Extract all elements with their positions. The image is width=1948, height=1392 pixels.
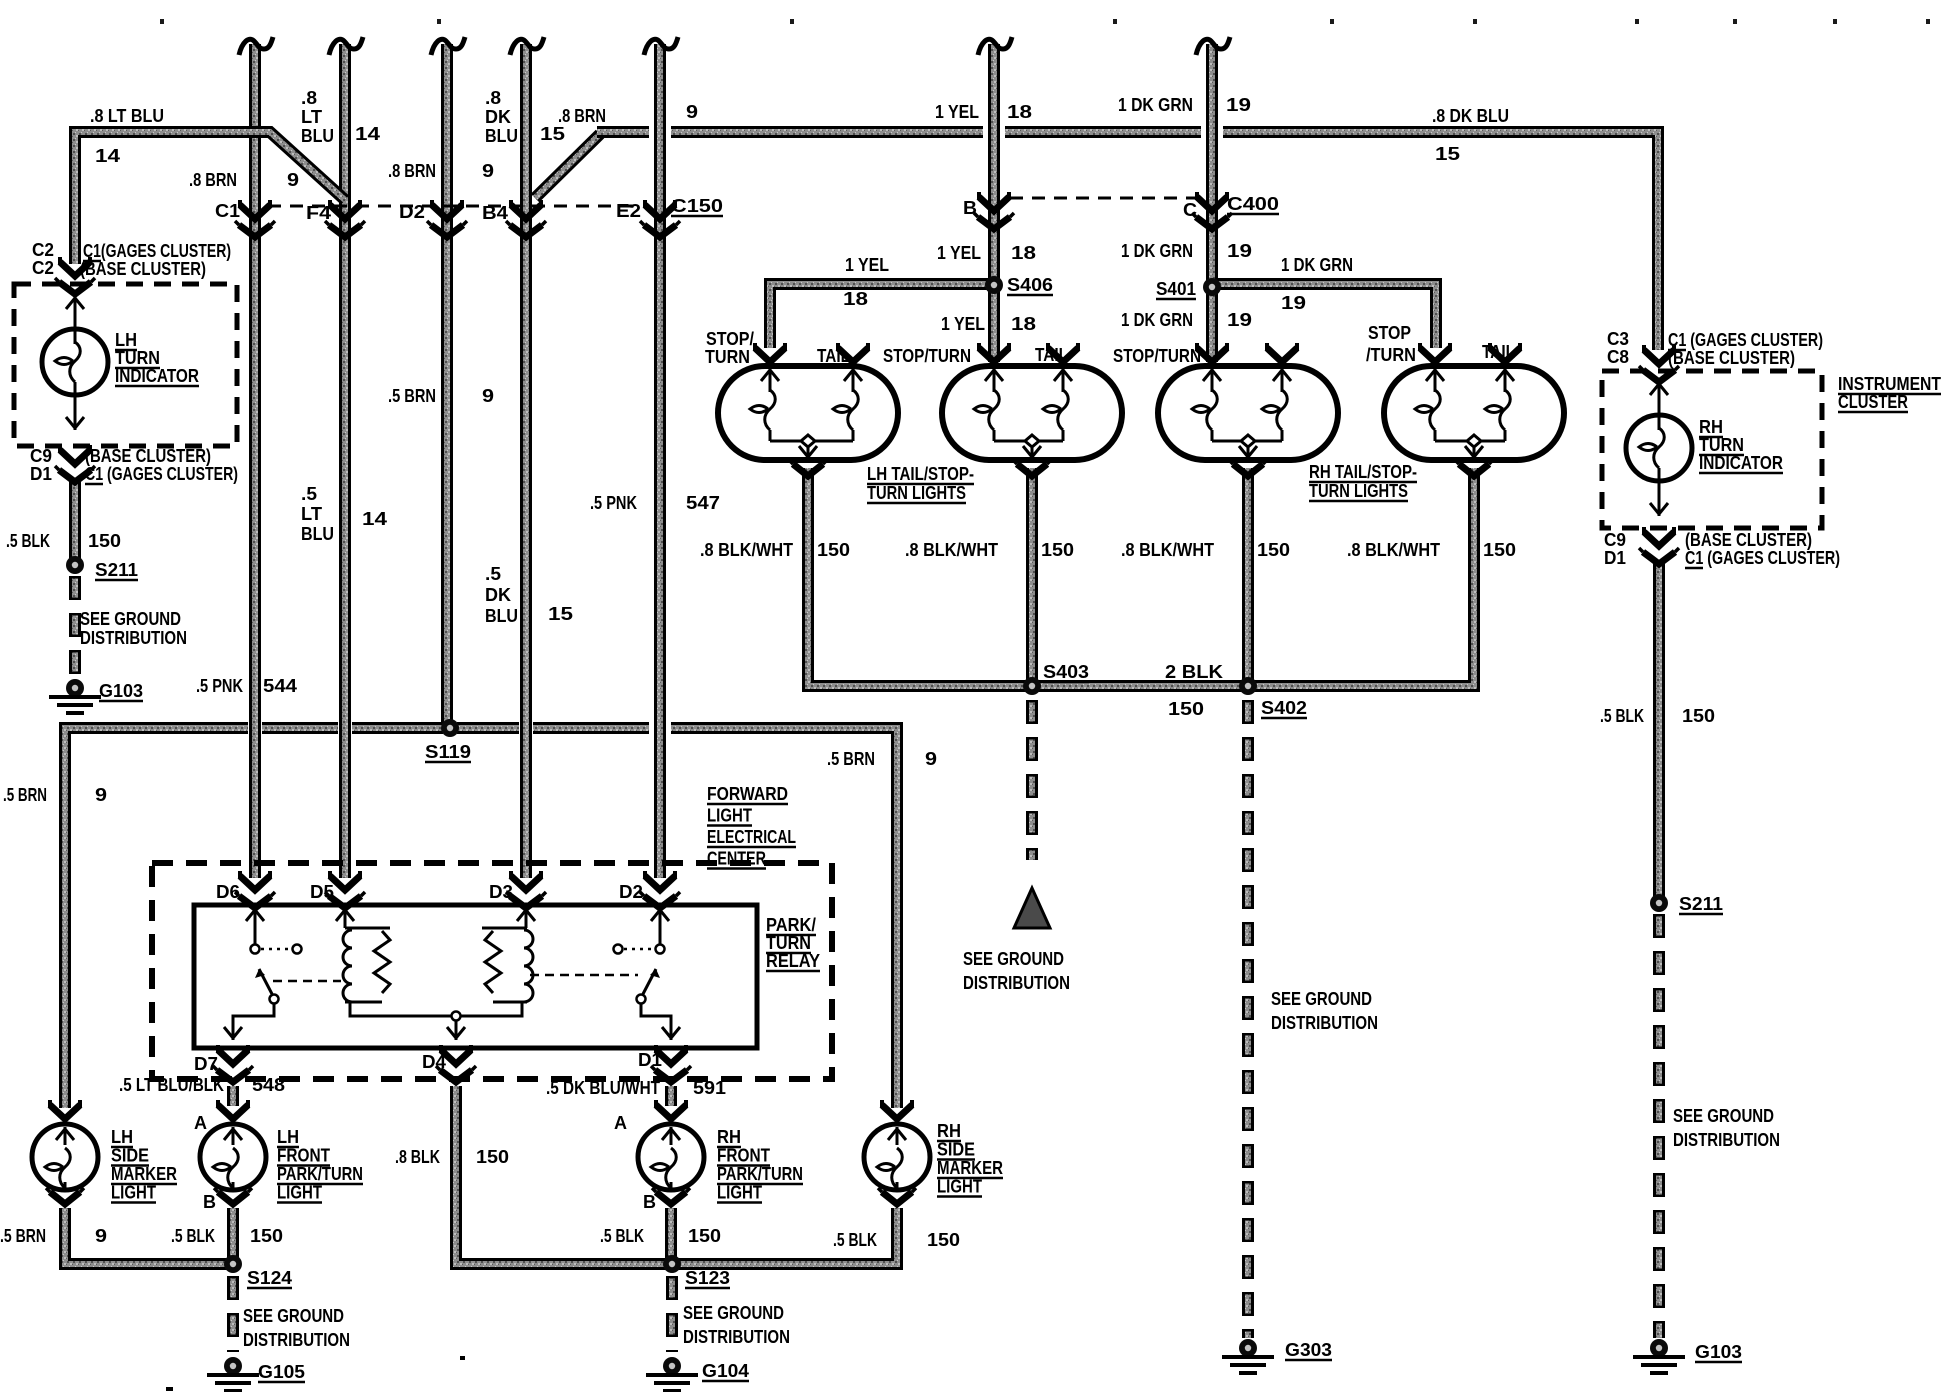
svg-text:.8 BRN: .8 BRN <box>558 106 606 126</box>
svg-text:DISTRIBUTION: DISTRIBUTION <box>243 1330 350 1350</box>
svg-text:9: 9 <box>95 785 107 805</box>
svg-text:TURN: TURN <box>1699 435 1744 455</box>
svg-text:18: 18 <box>1011 314 1036 334</box>
svg-text:/TURN: /TURN <box>1366 345 1416 365</box>
svg-text:.5 DK BLU/WHT: .5 DK BLU/WHT <box>546 1078 660 1098</box>
svg-text:SEE GROUND: SEE GROUND <box>1271 989 1372 1009</box>
svg-text:S401: S401 <box>1156 279 1196 299</box>
svg-text:.5 BRN: .5 BRN <box>3 785 47 805</box>
svg-text:.8 BLK: .8 BLK <box>395 1147 440 1167</box>
svg-text:150: 150 <box>88 531 121 551</box>
svg-text:D2: D2 <box>619 882 643 902</box>
svg-text:.5 BRN: .5 BRN <box>388 386 436 406</box>
svg-text:C8: C8 <box>1607 347 1629 367</box>
svg-text:G103: G103 <box>1695 1342 1742 1362</box>
svg-text:A: A <box>614 1113 627 1133</box>
svg-text:19: 19 <box>1227 310 1252 330</box>
svg-text:TURN LIGHTS: TURN LIGHTS <box>867 483 966 503</box>
svg-text:PARK/: PARK/ <box>766 915 816 935</box>
svg-text:DISTRIBUTION: DISTRIBUTION <box>1271 1013 1378 1033</box>
svg-text:S124: S124 <box>247 1268 292 1288</box>
svg-text:18: 18 <box>1007 102 1032 122</box>
svg-text:1 DK GRN: 1 DK GRN <box>1118 95 1193 115</box>
svg-text:TAIL: TAIL <box>1482 342 1515 362</box>
svg-text:.8 BLK/WHT: .8 BLK/WHT <box>1347 540 1440 560</box>
svg-text:.8 BRN: .8 BRN <box>189 170 237 190</box>
svg-text:150: 150 <box>1168 699 1204 719</box>
svg-text:S211: S211 <box>1679 894 1723 914</box>
svg-text:G104: G104 <box>702 1361 749 1381</box>
svg-text:C2: C2 <box>32 240 54 260</box>
svg-text:TAIL: TAIL <box>1035 345 1068 365</box>
svg-text:2 BLK: 2 BLK <box>1165 662 1223 682</box>
svg-text:(BASE CLUSTER): (BASE CLUSTER) <box>80 259 206 279</box>
svg-text:SEE GROUND: SEE GROUND <box>243 1306 344 1326</box>
svg-text:LH TAIL/STOP-: LH TAIL/STOP- <box>867 464 974 484</box>
svg-text:547: 547 <box>686 493 720 513</box>
svg-text:C1 (GAGES CLUSTER): C1 (GAGES CLUSTER) <box>1668 330 1823 350</box>
svg-text:.5 BLK: .5 BLK <box>6 531 50 551</box>
svg-text:FRONT: FRONT <box>277 1146 330 1166</box>
svg-text:TURN: TURN <box>766 933 811 953</box>
svg-text:BLU: BLU <box>301 126 334 146</box>
svg-text:14: 14 <box>355 124 380 144</box>
svg-text:150: 150 <box>927 1230 960 1250</box>
svg-text:PARK/TURN: PARK/TURN <box>717 1164 803 1184</box>
svg-text:.5: .5 <box>301 484 317 504</box>
svg-text:150: 150 <box>688 1226 721 1246</box>
svg-text:1 DK GRN: 1 DK GRN <box>1121 241 1193 261</box>
svg-text:15: 15 <box>540 124 565 144</box>
svg-text:1 YEL: 1 YEL <box>935 102 979 122</box>
svg-text:S406: S406 <box>1007 275 1053 295</box>
svg-text:(BASE CLUSTER): (BASE CLUSTER) <box>1668 348 1795 368</box>
svg-text:B: B <box>963 198 977 218</box>
svg-text:FRONT: FRONT <box>717 1146 770 1166</box>
svg-text:DK: DK <box>485 107 511 127</box>
svg-text:18: 18 <box>843 289 868 309</box>
svg-text:.5 PNK: .5 PNK <box>590 493 637 513</box>
svg-text:.8 LT BLU: .8 LT BLU <box>90 106 164 126</box>
svg-text:D1: D1 <box>1604 548 1626 568</box>
svg-text:RH: RH <box>937 1121 961 1141</box>
svg-text:TURN LIGHTS: TURN LIGHTS <box>1309 481 1408 501</box>
svg-text:LT: LT <box>301 107 322 127</box>
svg-text:RH TAIL/STOP-: RH TAIL/STOP- <box>1309 462 1417 482</box>
svg-text:LH: LH <box>111 1127 133 1147</box>
svg-text:(BASE CLUSTER): (BASE CLUSTER) <box>1685 530 1812 550</box>
svg-text:STOP: STOP <box>1368 323 1411 343</box>
svg-text:19: 19 <box>1281 293 1306 313</box>
svg-text:DK: DK <box>485 585 511 605</box>
svg-text:150: 150 <box>1041 540 1074 560</box>
svg-text:9: 9 <box>95 1226 107 1246</box>
svg-text:SIDE: SIDE <box>111 1146 149 1166</box>
svg-text:TURN: TURN <box>705 347 750 367</box>
svg-text:14: 14 <box>95 146 120 166</box>
svg-text:G103: G103 <box>99 681 143 701</box>
svg-text:C1 (GAGES CLUSTER): C1 (GAGES CLUSTER) <box>1685 548 1840 568</box>
svg-text:MARKER: MARKER <box>937 1158 1003 1178</box>
svg-text:1 DK GRN: 1 DK GRN <box>1121 310 1193 330</box>
svg-text:C9: C9 <box>1604 530 1626 550</box>
svg-text:SIDE: SIDE <box>937 1140 975 1160</box>
svg-text:B4: B4 <box>482 203 508 223</box>
svg-text:LIGHT: LIGHT <box>277 1183 322 1203</box>
svg-text:D4: D4 <box>422 1052 446 1072</box>
svg-text:CLUSTER: CLUSTER <box>1838 392 1908 412</box>
svg-text:18: 18 <box>1011 243 1036 263</box>
svg-text:E2: E2 <box>616 201 641 221</box>
svg-text:LH: LH <box>115 330 137 350</box>
svg-text:.8 BLK/WHT: .8 BLK/WHT <box>700 540 793 560</box>
svg-text:.5 BRN: .5 BRN <box>0 1226 46 1246</box>
svg-text:1 YEL: 1 YEL <box>937 243 981 263</box>
svg-text:LIGHT: LIGHT <box>111 1183 156 1203</box>
svg-text:STOP/: STOP/ <box>706 329 754 349</box>
svg-text:G105: G105 <box>258 1362 305 1382</box>
svg-text:.8 BLK/WHT: .8 BLK/WHT <box>1121 540 1214 560</box>
svg-text:1 YEL: 1 YEL <box>941 314 985 334</box>
svg-text:9: 9 <box>925 749 937 769</box>
svg-text:C2: C2 <box>32 258 54 278</box>
svg-text:RELAY: RELAY <box>766 951 820 971</box>
svg-text:SEE GROUND: SEE GROUND <box>683 1303 784 1323</box>
svg-text:PARK/TURN: PARK/TURN <box>277 1164 363 1184</box>
svg-text:SEE GROUND: SEE GROUND <box>80 609 181 629</box>
svg-text:G303: G303 <box>1285 1340 1332 1360</box>
svg-text:544: 544 <box>263 676 297 696</box>
svg-text:SEE GROUND: SEE GROUND <box>1673 1106 1774 1126</box>
svg-text:INDICATOR: INDICATOR <box>1699 453 1783 473</box>
svg-text:D1: D1 <box>638 1050 662 1070</box>
svg-text:.5 BLK: .5 BLK <box>1600 706 1644 726</box>
svg-text:.5 BLK: .5 BLK <box>171 1226 215 1246</box>
svg-text:CENTER: CENTER <box>707 849 766 869</box>
svg-text:S211: S211 <box>95 560 138 580</box>
svg-text:FORWARD: FORWARD <box>707 784 788 804</box>
svg-text:.5 BLK: .5 BLK <box>600 1226 644 1246</box>
svg-text:DISTRIBUTION: DISTRIBUTION <box>683 1327 790 1347</box>
svg-text:C1 (GAGES CLUSTER): C1 (GAGES CLUSTER) <box>85 464 238 484</box>
svg-text:STOP/TURN: STOP/TURN <box>883 346 971 366</box>
svg-text:B: B <box>203 1192 216 1212</box>
svg-text:150: 150 <box>476 1147 509 1167</box>
svg-text:BLU: BLU <box>485 126 518 146</box>
svg-text:DISTRIBUTION: DISTRIBUTION <box>963 973 1070 993</box>
svg-text:.5 BRN: .5 BRN <box>827 749 875 769</box>
svg-text:9: 9 <box>287 170 299 190</box>
svg-text:.8: .8 <box>485 88 501 108</box>
svg-text:F4: F4 <box>306 203 331 223</box>
svg-text:C9: C9 <box>30 446 52 466</box>
svg-text:C400: C400 <box>1227 194 1279 214</box>
svg-text:SEE GROUND: SEE GROUND <box>963 949 1064 969</box>
svg-text:DISTRIBUTION: DISTRIBUTION <box>80 628 187 648</box>
svg-text:C1: C1 <box>215 201 240 221</box>
svg-text:A: A <box>194 1113 207 1133</box>
svg-text:150: 150 <box>817 540 850 560</box>
svg-text:150: 150 <box>1257 540 1290 560</box>
svg-text:19: 19 <box>1226 95 1251 115</box>
svg-text:LIGHT: LIGHT <box>937 1177 982 1197</box>
svg-text:TAIL: TAIL <box>817 346 850 366</box>
svg-text:D7: D7 <box>194 1054 218 1074</box>
svg-text:591: 591 <box>693 1078 726 1098</box>
svg-text:9: 9 <box>482 386 494 406</box>
svg-text:STOP/TURN: STOP/TURN <box>1113 346 1201 366</box>
svg-text:S403: S403 <box>1043 662 1089 682</box>
svg-text:DISTRIBUTION: DISTRIBUTION <box>1673 1130 1780 1150</box>
svg-text:C3: C3 <box>1607 329 1629 349</box>
svg-text:.5 LT BLU/BLK: .5 LT BLU/BLK <box>119 1075 224 1095</box>
svg-text:.5 BLK: .5 BLK <box>833 1230 877 1250</box>
svg-text:1 DK GRN: 1 DK GRN <box>1281 255 1353 275</box>
svg-text:LT: LT <box>301 504 322 524</box>
svg-text:548: 548 <box>252 1075 285 1095</box>
svg-text:150: 150 <box>1483 540 1516 560</box>
svg-text:LIGHT: LIGHT <box>717 1183 762 1203</box>
svg-text:C1(GAGES CLUSTER): C1(GAGES CLUSTER) <box>83 241 231 261</box>
svg-text:INDICATOR: INDICATOR <box>115 366 199 386</box>
svg-text:150: 150 <box>250 1226 283 1246</box>
svg-text:LH: LH <box>277 1127 299 1147</box>
svg-text:.5 PNK: .5 PNK <box>196 676 243 696</box>
svg-text:RH: RH <box>717 1127 741 1147</box>
svg-text:B: B <box>643 1192 656 1212</box>
svg-text:TURN: TURN <box>115 348 160 368</box>
svg-text:ELECTRICAL: ELECTRICAL <box>707 827 796 847</box>
svg-text:D2: D2 <box>399 202 425 222</box>
svg-text:.8 DK BLU: .8 DK BLU <box>1432 106 1509 126</box>
svg-text:1 YEL: 1 YEL <box>845 255 889 275</box>
svg-text:.8 BLK/WHT: .8 BLK/WHT <box>905 540 998 560</box>
svg-text:S119: S119 <box>425 742 471 762</box>
svg-text:S123: S123 <box>685 1268 730 1288</box>
svg-text:INSTRUMENT: INSTRUMENT <box>1838 374 1941 394</box>
svg-text:14: 14 <box>362 509 387 529</box>
svg-text:RH: RH <box>1699 417 1723 437</box>
svg-text:C: C <box>1183 200 1197 220</box>
svg-text:15: 15 <box>548 604 573 624</box>
svg-text:MARKER: MARKER <box>111 1164 177 1184</box>
svg-text:.5: .5 <box>485 564 501 584</box>
svg-text:LIGHT: LIGHT <box>707 806 752 826</box>
svg-text:D3: D3 <box>489 882 513 902</box>
svg-text:(BASE CLUSTER): (BASE CLUSTER) <box>85 446 211 466</box>
svg-text:15: 15 <box>1435 144 1460 164</box>
svg-text:.8: .8 <box>301 88 317 108</box>
svg-text:9: 9 <box>482 161 494 181</box>
svg-text:BLU: BLU <box>485 606 518 626</box>
svg-text:S402: S402 <box>1261 698 1307 718</box>
svg-text:D5: D5 <box>310 882 334 902</box>
svg-text:9: 9 <box>686 102 698 122</box>
svg-text:150: 150 <box>1682 706 1715 726</box>
svg-text:.8 BRN: .8 BRN <box>388 161 436 181</box>
svg-text:D6: D6 <box>216 882 240 902</box>
svg-text:D1: D1 <box>30 464 52 484</box>
svg-text:C150: C150 <box>671 196 723 216</box>
svg-text:BLU: BLU <box>301 524 334 544</box>
svg-text:19: 19 <box>1227 241 1252 261</box>
